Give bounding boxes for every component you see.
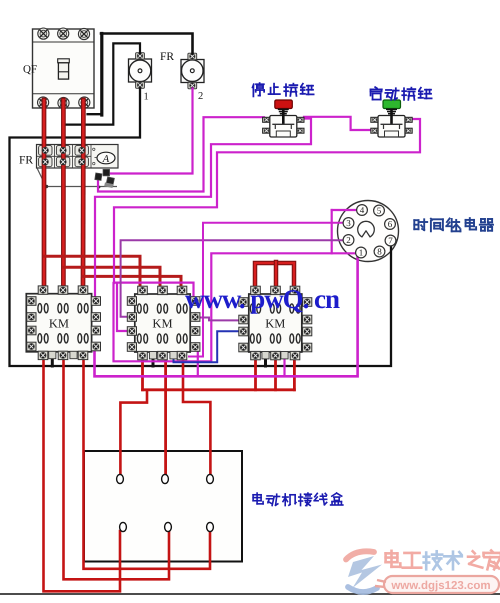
svg-text:KM: KM (49, 316, 69, 330)
logo banner www.dgjs123.com (375, 576, 499, 593)
wire red phase L3: QF to FR to KM1 top 3 (81, 100, 86, 288)
ammeter A on FR block (95, 152, 116, 165)
wire red KM3 bottom 2 to delta rail (274, 358, 277, 390)
fuse FU1 (129, 53, 152, 103)
wire red KM2 bottom 1 down to delta rail (141, 358, 144, 390)
label motor terminal box 电动机接线盒 (253, 493, 343, 505)
wire magenta: holding node to KM2 aux terminal (right side 1) (114, 283, 194, 297)
logo text 之家 (468, 550, 500, 569)
wire magenta: relay pin 4 link down to pin 1 line (331, 210, 333, 253)
wire red bus L1 to KM2 top 1 (44, 256, 140, 288)
thermal overload relay FR block (37, 145, 119, 169)
wire purple: relay pin 2 to KM2 left side 2 (121, 240, 344, 316)
svg-text:1: 1 (144, 91, 149, 102)
wire magenta: relay pin 1 down to coil return rail (95, 257, 358, 376)
wire magenta: holding node branch to KM2 coil A1 (left side 3) (117, 283, 129, 331)
contactor KM1 body (26, 286, 100, 360)
wire magenta: holding node down and over to relay pin 1 (114, 253, 357, 361)
wire magenta: start button right to holding node, down to junction (114, 119, 420, 283)
wire magenta: FR aux contact to stop button left terminal (98, 117, 264, 191)
wire magenta: KM2 coil stub to return rail (197, 352, 199, 376)
svg-text:1: 1 (359, 248, 364, 258)
svg-text:2: 2 (198, 91, 203, 102)
wire magenta: link to relay pin 4 (332, 209, 357, 211)
logo text 电工技术之家 (386, 551, 422, 568)
label time relay 时间继电器 (414, 218, 493, 231)
wire black: QF lower-right screw to fuse FU2 top (88, 113, 102, 115)
svg-text:5: 5 (377, 206, 382, 216)
wire red bus L3 to KM2 top 3 (83, 276, 181, 288)
wire magenta: pin 3 line stub into KM2 right side 2 (199, 317, 204, 319)
label stop button 停止按钮 (253, 83, 314, 96)
QF toggle handle (58, 59, 70, 79)
FR auxiliary contact terminals (95, 169, 115, 188)
wire red KM3 bottom 3 to delta rail (293, 358, 296, 390)
svg-text:4: 4 (360, 205, 365, 215)
label start button 启动按钮 (371, 87, 432, 100)
contactor KM2 body (127, 286, 200, 360)
svg-text:6: 6 (388, 219, 393, 229)
svg-text:KM: KM (152, 317, 172, 331)
time relay socket body (338, 201, 399, 262)
wire black: neutral loop from fuse FU1 bottom around to relay pin 7 (10, 89, 392, 367)
wire magenta: stop button right to start button left (304, 117, 372, 130)
logo text 技术 (424, 551, 462, 569)
svg-text:7: 7 (388, 236, 393, 246)
wire black: QF lower-middle screw to fuse FU1 top (66, 43, 140, 124)
svg-text:FR: FR (160, 51, 174, 63)
wire red KM2 bottom 3 to motor terminal W1 (183, 358, 210, 474)
FR block terminal screws (42, 147, 85, 165)
svg-text:www. pwQ. cn: www. pwQ. cn (185, 284, 340, 314)
wire black: page bottom rule (0, 593, 500, 595)
svg-text:KM: KM (265, 317, 285, 331)
wire magenta: relay pin 3 line down between contactors (189, 223, 344, 357)
wire black: KM1 bottom stub to neutral bus (51, 356, 54, 366)
wire red phase L2: QF to FR to KM1 top 2 (61, 100, 66, 288)
svg-text:www.dgjs123.com: www.dgjs123.com (390, 580, 490, 592)
wire red KM1 bottom 3 to motor W2 (bottom row 3) (84, 358, 211, 569)
wire red KM1 bottom 1 to motor U2 (bottom row 1) (44, 358, 121, 591)
wire red star-point shorting bar over KM3 (255, 263, 294, 288)
svg-text:A: A (102, 154, 110, 165)
motor box terminals (6) (117, 474, 214, 531)
stop push button SB1 (red) (263, 100, 304, 137)
wire red bus L2 to KM2 top 2 (63, 267, 160, 288)
svg-text:3: 3 (346, 218, 351, 228)
start push button SB2 (green) (371, 100, 412, 137)
wire red KM2 bottom 2 to motor terminal V1 (164, 358, 167, 474)
svg-text:QF: QF (23, 64, 37, 76)
svg-text:8: 8 (377, 247, 382, 257)
svg-text:2: 2 (346, 235, 351, 245)
circuit breaker QF (33, 28, 95, 109)
wire red KM3 bottom 1 to delta rail (254, 358, 257, 390)
time relay pin circles 1-8 (343, 205, 396, 258)
svg-text:FR: FR (19, 155, 33, 167)
wire red KM1 bottom 2 to motor V2 (bottom row 2) (64, 358, 170, 579)
wire blue: KM2 bottom aux to KM3 left side 3 (174, 331, 241, 362)
wire black: KM3 bottom stub to neutral bus (264, 356, 267, 366)
contactor KM3 body (239, 286, 312, 360)
wire red star bar middle drop to KM3 top 2 (274, 262, 279, 288)
motor terminal box 电动机接线盒 outline (84, 451, 242, 562)
wire magenta: KM3 coil stub to return rail (283, 358, 285, 376)
site logo icon (lightning S) (346, 551, 382, 592)
wire magenta: fuse FU2 bottom to FR auxiliary contact (109, 89, 193, 174)
wire red phase L1: QF to FR to KM1 top 1 (42, 100, 47, 288)
wire red delta rail below contactors (143, 388, 295, 391)
wire magenta: stop button right terminal to KM1 coil terminal (right side 1) (95, 119, 311, 298)
wire red rail tap to motor terminal U1 (120, 390, 147, 474)
FR trip linkage bar (37, 168, 117, 188)
wire purple: pin 3 line branch to KM3 left side 2 (203, 318, 240, 321)
wire black: KM2 bottom stub to neutral bus (152, 356, 155, 366)
fuse FU2 (181, 53, 204, 102)
